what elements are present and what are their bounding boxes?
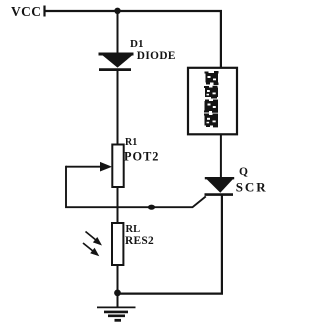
svg-text:POT2: POT2 <box>124 150 159 164</box>
text: detection system char 4 <box>204 114 218 128</box>
node: junction on gate wire <box>148 205 155 210</box>
text: detection system char 1 <box>205 71 219 85</box>
svg-text:VCC: VCC <box>11 4 41 19</box>
ground <box>97 307 136 320</box>
svg-text:DIODE: DIODE <box>137 50 176 62</box>
svg-text:D1: D1 <box>130 38 143 50</box>
potentiometer wiper arrow <box>66 162 112 172</box>
potentiometer R1 body <box>112 145 123 188</box>
photo arrow 2 <box>83 243 99 256</box>
node: bottom junction <box>114 290 121 297</box>
wire: top rail from VCC to right rail corner <box>45 11 221 68</box>
node: top junction <box>114 8 120 14</box>
wire: RL bottom down to ground <box>117 265 119 308</box>
wire: wiper loop down and right to SCR gate <box>66 166 206 207</box>
VCC terminal tick <box>43 6 45 17</box>
svg-text:SCR: SCR <box>236 180 268 195</box>
wire: bottom rail and right rail up to SCR cathode <box>118 194 222 294</box>
svg-text:R1: R1 <box>125 137 137 148</box>
wire: right rail from box bottom to SCR anode <box>220 134 222 179</box>
box: detection system <box>188 68 237 135</box>
wire: potentiometer bottom down to RL <box>117 187 119 224</box>
diode D1 <box>99 54 134 70</box>
wire: diode cathode down to potentiometer <box>117 69 119 146</box>
text: detection system char 3 <box>204 100 218 113</box>
thyristor Q SCR <box>205 178 235 194</box>
photo arrow 1 <box>86 232 103 246</box>
resistor RL body <box>112 223 123 265</box>
text: detection system char 2 <box>204 86 218 99</box>
wire: top junction down to diode anode <box>117 11 119 54</box>
svg-text:RES2: RES2 <box>125 235 154 247</box>
svg-text:Q: Q <box>239 166 248 178</box>
svg-text:RL: RL <box>126 224 141 235</box>
